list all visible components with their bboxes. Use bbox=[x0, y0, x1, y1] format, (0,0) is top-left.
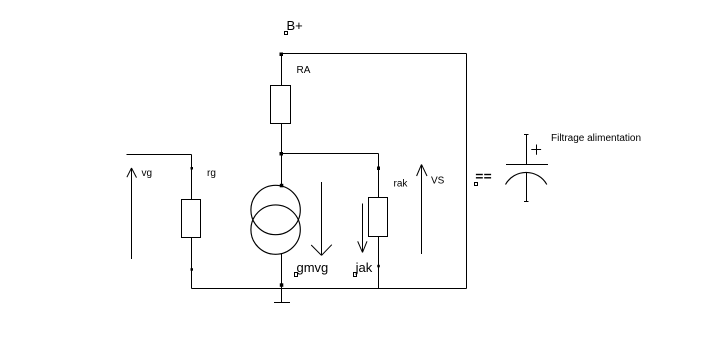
svg-text:VS: VS bbox=[431, 175, 445, 186]
svg-text:Filtrage alimentation: Filtrage alimentation bbox=[551, 133, 641, 144]
svg-text:gmvg: gmvg bbox=[297, 260, 329, 275]
svg-text:B+: B+ bbox=[287, 18, 303, 33]
svg-text:rak: rak bbox=[394, 178, 409, 189]
svg-text:rg: rg bbox=[207, 168, 216, 179]
svg-text:RA: RA bbox=[297, 65, 311, 76]
svg-text:jak: jak bbox=[355, 260, 373, 275]
svg-text:vg: vg bbox=[142, 168, 153, 179]
